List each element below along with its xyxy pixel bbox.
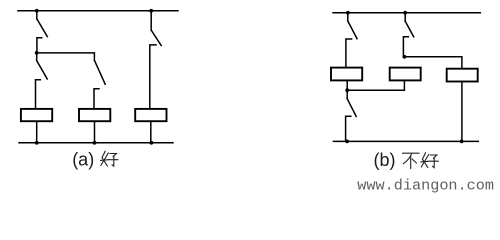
node: bottom rail (b) junction left [345, 140, 349, 144]
node A: junction below contact A1 [35, 51, 39, 55]
node: bottom rail junction 3 [150, 141, 154, 145]
label 好 (b) [421, 153, 439, 168]
coil KA1 (a) [21, 109, 52, 121]
node: bottom rail junction 1 [35, 141, 39, 145]
svg-text:www.diangon.com: www.diangon.com [357, 176, 494, 194]
wire: junction to coil KB2 bottom [347, 80, 404, 90]
wire: coil KA2 bottom lead [94, 121, 96, 143]
top rail (b) [333, 12, 480, 14]
wire: junction to coil KB3 top [404, 57, 462, 69]
node B: junction below coil KB1 [345, 88, 349, 92]
node C: junction above coil KB2 [403, 55, 407, 59]
node: top rail (b) junction right [403, 11, 407, 15]
node: top rail junction right [149, 9, 153, 13]
contact A1 (NO contact, left branch top) [37, 11, 48, 53]
wire: coil KA1 bottom lead [36, 121, 38, 143]
contact B3 (NO contact, below junction) [346, 90, 357, 141]
contact B2 (NO contact, right branch) [403, 13, 413, 57]
coil KB1 (b) [331, 68, 362, 81]
wire: coil KB3 bottom lead [461, 82, 463, 142]
label 好 (a) [100, 151, 118, 166]
coil KA3 (a) [135, 109, 166, 121]
contact A4 (NO contact, right branch) [150, 11, 161, 109]
contact A2 (NO contact, left branch lower) [36, 53, 48, 109]
bottom rail (b) [333, 140, 478, 142]
wire: coil KB1 bottom lead [346, 80, 348, 90]
top rail (a) [18, 10, 178, 12]
coil KA2 (a) [79, 109, 110, 121]
coil KB2 (b) [390, 68, 421, 81]
node: bottom rail junction 2 [93, 141, 97, 145]
contact B1 (NO contact, left branch) [346, 13, 357, 68]
bottom rail (a) [19, 142, 173, 144]
contact A3 (NO contact, middle branch) [94, 60, 105, 109]
coil KB3 (b) [447, 69, 478, 82]
label 不 (b) [402, 153, 419, 168]
svg-text:(b): (b) [374, 150, 396, 170]
node: top rail junction left [35, 9, 39, 13]
wire: junction to middle branch [37, 53, 95, 60]
wire: coil KA3 bottom lead [150, 121, 152, 143]
svg-text:(a): (a) [72, 150, 94, 170]
node: top rail (b) junction left [346, 11, 350, 15]
node: bottom rail (b) junction right [460, 140, 464, 144]
